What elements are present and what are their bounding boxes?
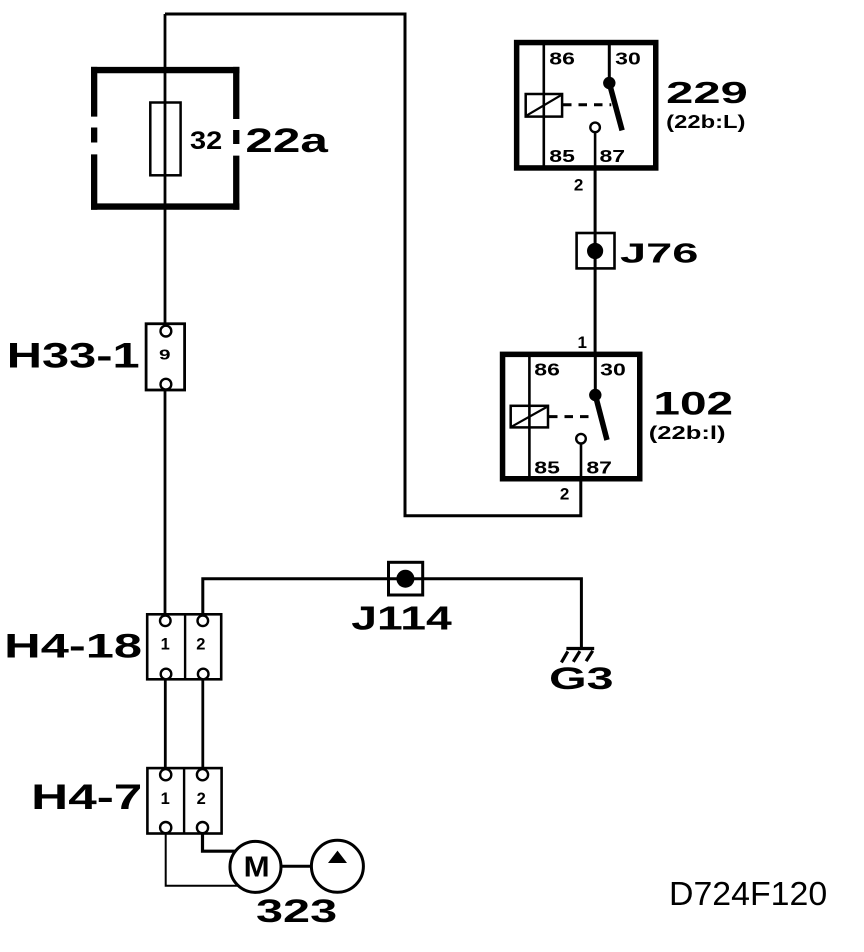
connector H4-7 terminals: [160, 769, 208, 833]
motor 323 body: [230, 841, 281, 892]
relay 102 pin 87 line: [580, 444, 583, 480]
relay 229 pin 87 line: [594, 132, 597, 168]
svg-text:(22b:l): (22b:l): [649, 423, 726, 443]
relay 229 armature pivot: [603, 77, 615, 89]
relay 102 pin 86 line: [528, 354, 531, 479]
connector H33-1 bottom terminal: [161, 379, 172, 390]
relay 102 coil: [511, 406, 548, 428]
wire H4-18 pin 2 to H4-7 pin 2: [201, 676, 204, 772]
wire from fuse 22a top loop to relay 102 pin 87 (net 22a-102): [165, 14, 581, 516]
splice J76 box: [577, 233, 615, 268]
motor-pump shaft link: [281, 865, 312, 868]
svg-text:30: 30: [600, 359, 626, 379]
svg-text:M: M: [244, 852, 270, 884]
svg-text:H4-7: H4-7: [31, 778, 142, 817]
svg-text:J76: J76: [620, 238, 698, 269]
svg-text:85: 85: [549, 146, 575, 166]
wire H4-7 pin 1 to motor 323 lower terminal: [166, 830, 248, 886]
connector H4-7 divider: [183, 768, 185, 833]
relay 229 pin 86 line: [542, 42, 545, 168]
relay 229 box: [517, 43, 656, 168]
relay 102 armature arm: [595, 395, 607, 440]
svg-text:229: 229: [666, 76, 748, 110]
svg-text:H4-18: H4-18: [4, 628, 142, 666]
svg-text:32: 32: [190, 127, 222, 155]
svg-text:22a: 22a: [245, 122, 329, 160]
svg-text:30: 30: [615, 48, 641, 68]
svg-text:2: 2: [197, 790, 206, 808]
relay 229 pin 30 line: [608, 42, 611, 83]
connector H33-1 body: [146, 324, 185, 390]
svg-text:323: 323: [256, 893, 337, 929]
svg-text:H33-1: H33-1: [7, 337, 140, 376]
relay 102 armature pivot: [589, 389, 601, 401]
relay 102 contact 87 circle: [576, 434, 586, 444]
relay 229 pin labels: [549, 48, 641, 165]
relay 229 coil: [526, 94, 562, 117]
relay 102 pin labels: [534, 359, 626, 477]
splice J114 dot: [396, 570, 414, 588]
svg-text:87: 87: [586, 458, 612, 478]
fuse 32 element: [150, 103, 180, 176]
wire H33-1 pin 9 to H4-18 pin 1: [164, 382, 167, 618]
splice J114 box: [389, 562, 423, 595]
svg-text:86: 86: [549, 48, 575, 68]
pump triangle: [328, 851, 347, 863]
svg-text:9: 9: [159, 347, 171, 364]
svg-text:G3: G3: [549, 661, 614, 696]
svg-text:102: 102: [653, 386, 733, 422]
wire H4-7 pin 2 to motor 323 upper terminal: [203, 830, 237, 851]
ground G3 symbol: [561, 649, 594, 663]
connector H4-18 terminals: [160, 616, 209, 680]
svg-text:1: 1: [578, 333, 587, 352]
svg-text:86: 86: [534, 359, 560, 379]
relay 229 armature arm: [609, 83, 622, 130]
relay 102 box: [503, 354, 640, 478]
pump body: [311, 840, 363, 892]
wire fuse 22a feed down through fuse to connector H33-1: [164, 14, 167, 328]
connector H4-18 divider: [184, 614, 186, 679]
svg-text:2: 2: [560, 484, 569, 503]
svg-text:1: 1: [161, 636, 170, 654]
wire relay 229 pin 87 to relay 102 pin 30 via splice J76: [594, 169, 597, 353]
svg-text:(22b:L): (22b:L): [666, 112, 745, 133]
wire H4-18 pin 1 to H4-7 pin 1: [164, 676, 167, 772]
connector H4-18 body: [147, 614, 221, 679]
relay 229 coil-contact dashed link: [563, 103, 611, 106]
connector H33-1 top terminal: [161, 326, 172, 337]
svg-text:J114: J114: [351, 600, 452, 637]
fuse holder 22a dashed enclosure: [91, 67, 239, 210]
svg-text:85: 85: [534, 458, 560, 478]
wire H4-18 pin 2 to ground G3 via splice J114: [203, 579, 582, 648]
svg-text:2: 2: [574, 175, 583, 194]
relay 102 pin 30 line: [594, 354, 597, 395]
svg-text:87: 87: [600, 146, 626, 166]
svg-text:2: 2: [196, 636, 205, 654]
connector H4-7 body: [147, 768, 221, 833]
relay 102 coil-contact dashed link: [549, 415, 595, 418]
svg-text:1: 1: [161, 790, 170, 808]
relay 229 contact 87 circle: [590, 123, 600, 133]
splice J76 dot: [587, 243, 603, 259]
svg-text:D724F120: D724F120: [669, 875, 827, 912]
